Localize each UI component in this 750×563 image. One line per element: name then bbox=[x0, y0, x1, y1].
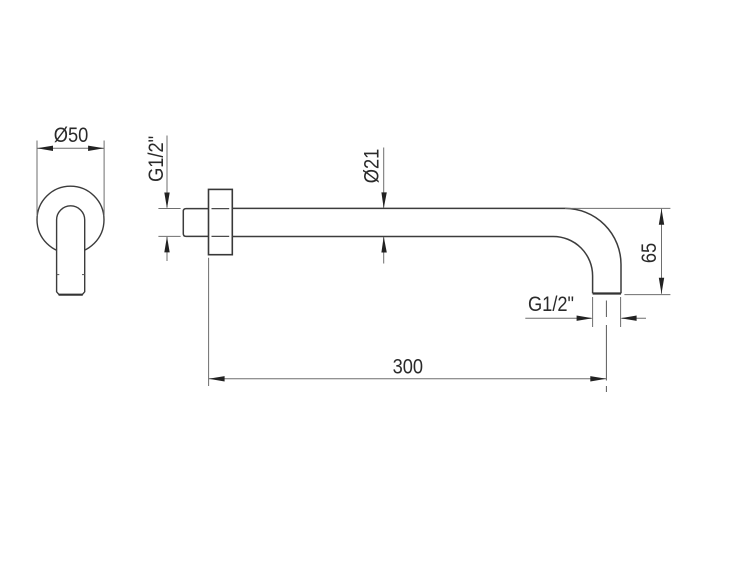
dimension Ø50: right arrowhead bbox=[88, 146, 104, 151]
dimension Ø50: left arrowhead bbox=[37, 146, 53, 151]
dimension 65: vertical dimension line bbox=[661, 209, 663, 294]
dimension Ø50: dimension line bbox=[37, 147, 104, 149]
svg-text:Ø21: Ø21 bbox=[360, 149, 383, 184]
dimension G1/2 (outlet): right extension line bbox=[620, 297, 622, 327]
dimension 65: bottom extension line bbox=[624, 294, 670, 296]
outlet centre line (dash-dot), segment 2 bbox=[605, 325, 607, 381]
dimension G1/2 (outlet): right arrowhead pointing left bbox=[621, 316, 637, 321]
dimension 65: top arrowhead pointing up bbox=[659, 209, 664, 225]
dimension G1/2 (left): lower arrowhead pointing up bbox=[164, 236, 169, 252]
dimension G1/2 (left): upper extension tick bbox=[158, 208, 180, 210]
svg-text:G1/2": G1/2" bbox=[145, 136, 168, 182]
dimension Ø21: lower leader line bbox=[383, 237, 385, 264]
dimension G1/2 (left): lower extension tick bbox=[158, 235, 180, 237]
main tube top contour with bend (side view) bbox=[232, 208, 621, 293]
dimension Ø50: extension line left bbox=[36, 141, 38, 217]
dimension 300: left extension line bbox=[208, 258, 210, 386]
wall flange (side view rectangle) bbox=[209, 189, 233, 254]
outlet centre line (dash-dot), segment 3 bbox=[605, 386, 607, 392]
dimension G1/2 (outlet): left dimension line bbox=[525, 317, 591, 319]
dimension G1/2 (left): upper leader line bbox=[166, 136, 168, 208]
threaded stub (side view) bbox=[183, 209, 208, 237]
shower arm tube (front view, rounded top, chamfered bottom) bbox=[57, 206, 85, 295]
dimension Ø21: upper arrowhead pointing down bbox=[381, 192, 386, 208]
outlet centre line (dash-dot), segment 1 bbox=[605, 301, 607, 318]
dimension G1/2 (outlet): right dimension line bbox=[622, 317, 646, 319]
dimension Ø50: extension line right bbox=[103, 141, 105, 217]
dimension 300: right arrowhead pointing right bbox=[590, 376, 606, 381]
dimension G1/2 (outlet): left arrowhead pointing right bbox=[577, 316, 593, 321]
wall flange circle (front view) bbox=[37, 186, 104, 253]
tube side tick marks (front view) bbox=[57, 274, 60, 276]
dimension G1/2 (outlet): left extension line bbox=[592, 297, 594, 327]
dimension 300: dimension line bbox=[209, 378, 607, 380]
dimension Ø21: upper leader line bbox=[383, 148, 385, 208]
tube lines hidden inside flange bbox=[212, 208, 230, 210]
dimension G1/2 (left): upper arrowhead pointing down bbox=[164, 193, 169, 209]
dimension G1/2 (left): lower leader line bbox=[166, 237, 168, 261]
svg-text:Ø50: Ø50 bbox=[54, 124, 89, 147]
tube outlet end cap thick line bbox=[593, 292, 621, 294]
svg-text:G1/2": G1/2" bbox=[528, 293, 574, 316]
svg-text:65: 65 bbox=[638, 243, 661, 263]
dimension 300: left arrowhead pointing left bbox=[209, 376, 225, 381]
main tube bottom contour with bend (side view) bbox=[232, 237, 592, 294]
svg-text:300: 300 bbox=[393, 355, 424, 378]
dimension 65: top extension line bbox=[565, 207, 670, 209]
dimension Ø21: lower arrowhead pointing up bbox=[381, 237, 386, 253]
tube end cap thick line (front view) bbox=[59, 294, 83, 296]
dimension 65: bottom arrowhead pointing down bbox=[659, 278, 664, 294]
